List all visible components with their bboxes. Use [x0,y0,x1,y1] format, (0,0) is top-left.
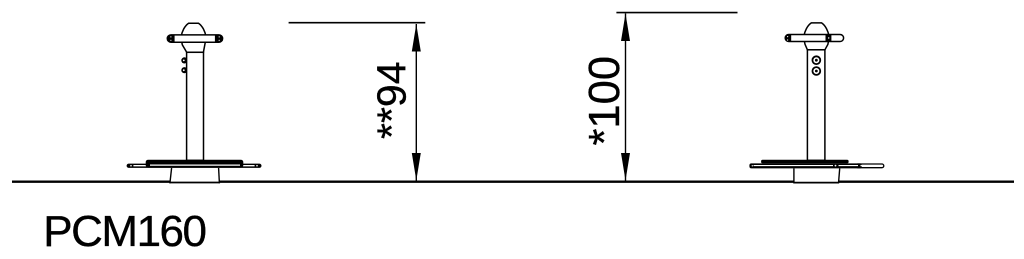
svg-text:**94: **94 [369,61,415,139]
svg-text:*100: *100 [581,56,629,146]
svg-text:PCM160: PCM160 [43,207,205,256]
